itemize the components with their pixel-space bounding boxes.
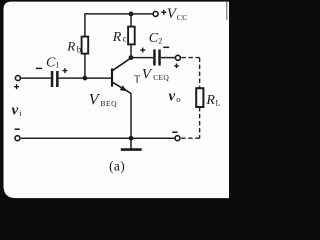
- capacitor C1: [51, 71, 59, 87]
- resistor Rc: [128, 27, 135, 45]
- terminal output top: [175, 55, 180, 60]
- terminal +Vcc: [153, 11, 158, 16]
- label +Vcc: [161, 6, 188, 22]
- wire bottom rail: [21, 137, 175, 139]
- label C2: [149, 31, 162, 46]
- wire dashed output bottom: [181, 107, 200, 138]
- svg-text:v: v: [12, 103, 19, 119]
- wire Rc bottom: [130, 44, 132, 57]
- resistor Rb: [82, 37, 89, 54]
- wire Rb bottom: [84, 54, 86, 79]
- wire top rail: [85, 13, 153, 15]
- svg-text:R: R: [205, 93, 215, 108]
- label C1 plus: [62, 68, 67, 73]
- capacitor C2: [153, 50, 161, 66]
- svg-text:R: R: [66, 39, 75, 54]
- label input plus: [14, 84, 19, 89]
- svg-text:v: v: [169, 89, 176, 105]
- svg-text:L: L: [216, 99, 221, 108]
- svg-text:1: 1: [55, 61, 59, 70]
- svg-text:(a): (a): [109, 158, 125, 173]
- svg-text:2: 2: [158, 37, 162, 46]
- wire collector node to C2: [131, 57, 153, 59]
- label vo: [169, 89, 181, 105]
- svg-text:c: c: [123, 34, 127, 44]
- wire emitter down: [130, 93, 132, 138]
- terminal input top: [15, 76, 20, 81]
- label C1 minus: [36, 67, 42, 69]
- svg-text:CC: CC: [177, 13, 188, 22]
- svg-text:CEQ: CEQ: [153, 73, 169, 82]
- wire input to C1: [21, 77, 51, 79]
- label C1: [46, 56, 59, 71]
- label C2 minus: [163, 46, 169, 48]
- label output minus: [172, 131, 177, 133]
- label V_CEQ: [142, 67, 170, 83]
- svg-text:BEQ: BEQ: [101, 99, 118, 108]
- wire Rb top: [84, 13, 86, 36]
- resistor RL: [196, 88, 203, 107]
- terminal input bottom: [15, 136, 20, 141]
- node top rail / Rc: [129, 12, 134, 17]
- label vi: [12, 103, 23, 119]
- wire dashed output top: [182, 58, 200, 88]
- node collector: [129, 55, 134, 60]
- terminal output bottom: [175, 136, 180, 141]
- wire C2 to output terminal: [161, 57, 175, 59]
- label Rb: [66, 39, 82, 55]
- label C2 plus: [140, 48, 145, 53]
- svg-text:o: o: [176, 94, 180, 104]
- label Rc: [112, 30, 127, 45]
- node emitter / ground: [129, 136, 134, 141]
- label input minus: [15, 128, 20, 130]
- label RL: [205, 93, 220, 108]
- label output plus: [174, 64, 179, 69]
- node base / Rb: [83, 76, 88, 81]
- wire C1 to base: [59, 77, 111, 79]
- svg-text:R: R: [112, 30, 122, 45]
- label V_BEQ: [89, 91, 117, 108]
- wire Rc top: [130, 14, 132, 27]
- svg-text:b: b: [77, 44, 82, 54]
- page background: [0, 0, 229, 205]
- transistor T: [112, 58, 131, 93]
- ground: [121, 138, 142, 149]
- svg-text:T: T: [134, 75, 140, 86]
